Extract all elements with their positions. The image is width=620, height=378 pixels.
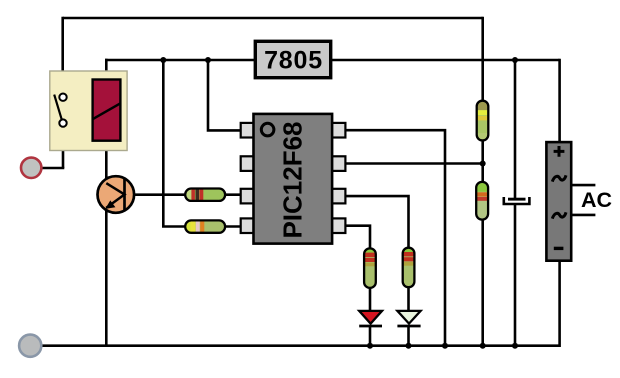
terminal (gray, neutral): [19, 335, 41, 357]
IC U1 PIC12F68: [241, 114, 346, 244]
wire pin2 right to resistor junction: [346, 162, 483, 165]
tilde lower: [552, 212, 566, 218]
wire AC stub upper: [571, 184, 595, 187]
wire pin1 right to ground: [346, 130, 446, 346]
pin 5 (right): [332, 218, 346, 233]
wire LED D2 to ground: [407, 327, 410, 346]
resistor R5: [183, 186, 227, 203]
transistor Q1: [98, 176, 135, 213]
pin 6 (right): [332, 189, 346, 204]
wire resistor R2 to ground: [481, 219, 484, 346]
wire coil bottom to collector: [105, 140, 108, 185]
junction pin2 wire / resistor chain: [480, 161, 486, 167]
relay K1 switch: [54, 94, 66, 127]
junction at output rail / capacitor: [512, 57, 518, 63]
relay K1 coil: [93, 80, 121, 141]
wire LED D1 to ground: [369, 327, 372, 346]
IC body: [254, 114, 333, 244]
wire 7805 output rail: [330, 59, 560, 62]
wire mid vertical to resistor R6: [163, 59, 186, 227]
wire 5V rail to 7805 input: [105, 59, 256, 62]
tilde upper: [552, 175, 566, 181]
resistor R1: [475, 99, 490, 142]
regulator U2 7805: [255, 41, 330, 77]
capacitor C1: [504, 197, 530, 204]
wire drop to resistor R1: [481, 17, 484, 102]
wire pin1 left lead: [208, 59, 242, 131]
pin-1 indicator dot: [261, 123, 274, 136]
wire resistor R3 to LED D1: [369, 287, 372, 312]
svg-text:AC: AC: [581, 188, 612, 212]
wire resistor R5 to pin3 left: [224, 193, 242, 196]
wire switch to input node: [62, 127, 65, 168]
wire coil top lead: [105, 59, 108, 81]
pin 7 (right): [332, 156, 346, 171]
wire drop to bridge +: [558, 59, 561, 143]
pin 4 (left): [241, 218, 255, 233]
wire resistor R6 to pin4 left: [224, 225, 242, 228]
pin 1 (left): [241, 123, 255, 138]
wire ground rail: [43, 260, 560, 346]
LED D1 (red): [359, 311, 382, 326]
wire capacitor to ground: [514, 204, 517, 346]
wire pin3 right to resistor R4: [346, 196, 409, 249]
junction at 5V rail / mid vertical: [160, 57, 166, 63]
wire resistor chain R1-R2: [481, 139, 484, 183]
junction ground / capacitor: [512, 343, 518, 349]
junction ground / pin1 wire: [442, 343, 448, 349]
wire red terminal lead: [42, 167, 64, 170]
label AC: [581, 188, 612, 212]
resistor R4: [400, 245, 416, 289]
wire resistor R4 to LED D2: [407, 287, 410, 313]
junction ground / LED D2: [406, 343, 412, 349]
pin 8 (right): [332, 123, 346, 138]
wire transistor base: [132, 193, 186, 196]
svg-text:7805: 7805: [264, 47, 323, 75]
terminal (red, live input): [21, 158, 41, 178]
wire top rail: [63, 17, 483, 20]
minus mark: [554, 247, 564, 250]
resistor R2: [474, 180, 490, 221]
junction at 5V rail / pin1 lead: [205, 57, 211, 63]
plus mark: [554, 146, 565, 157]
wire emitter to ground rail: [105, 207, 108, 346]
LED D2 (green): [397, 311, 420, 326]
wire capacitor chain: [514, 59, 517, 199]
pin 2 (left): [241, 156, 255, 171]
junction ground / resistor R2: [480, 343, 486, 349]
resistor R6: [183, 218, 227, 235]
bridge rectifier / AC source: [546, 142, 571, 261]
resistor R3: [362, 246, 378, 290]
pin 3 (left): [241, 189, 255, 204]
relay K1 body: [50, 71, 127, 151]
wire AC stub lower: [571, 214, 595, 217]
junction ground / LED D1: [367, 343, 373, 349]
svg-text:PIC12F68: PIC12F68: [277, 121, 307, 238]
wire pin4 right to resistor R3: [346, 226, 371, 250]
wire left drop to switch: [61, 17, 64, 94]
